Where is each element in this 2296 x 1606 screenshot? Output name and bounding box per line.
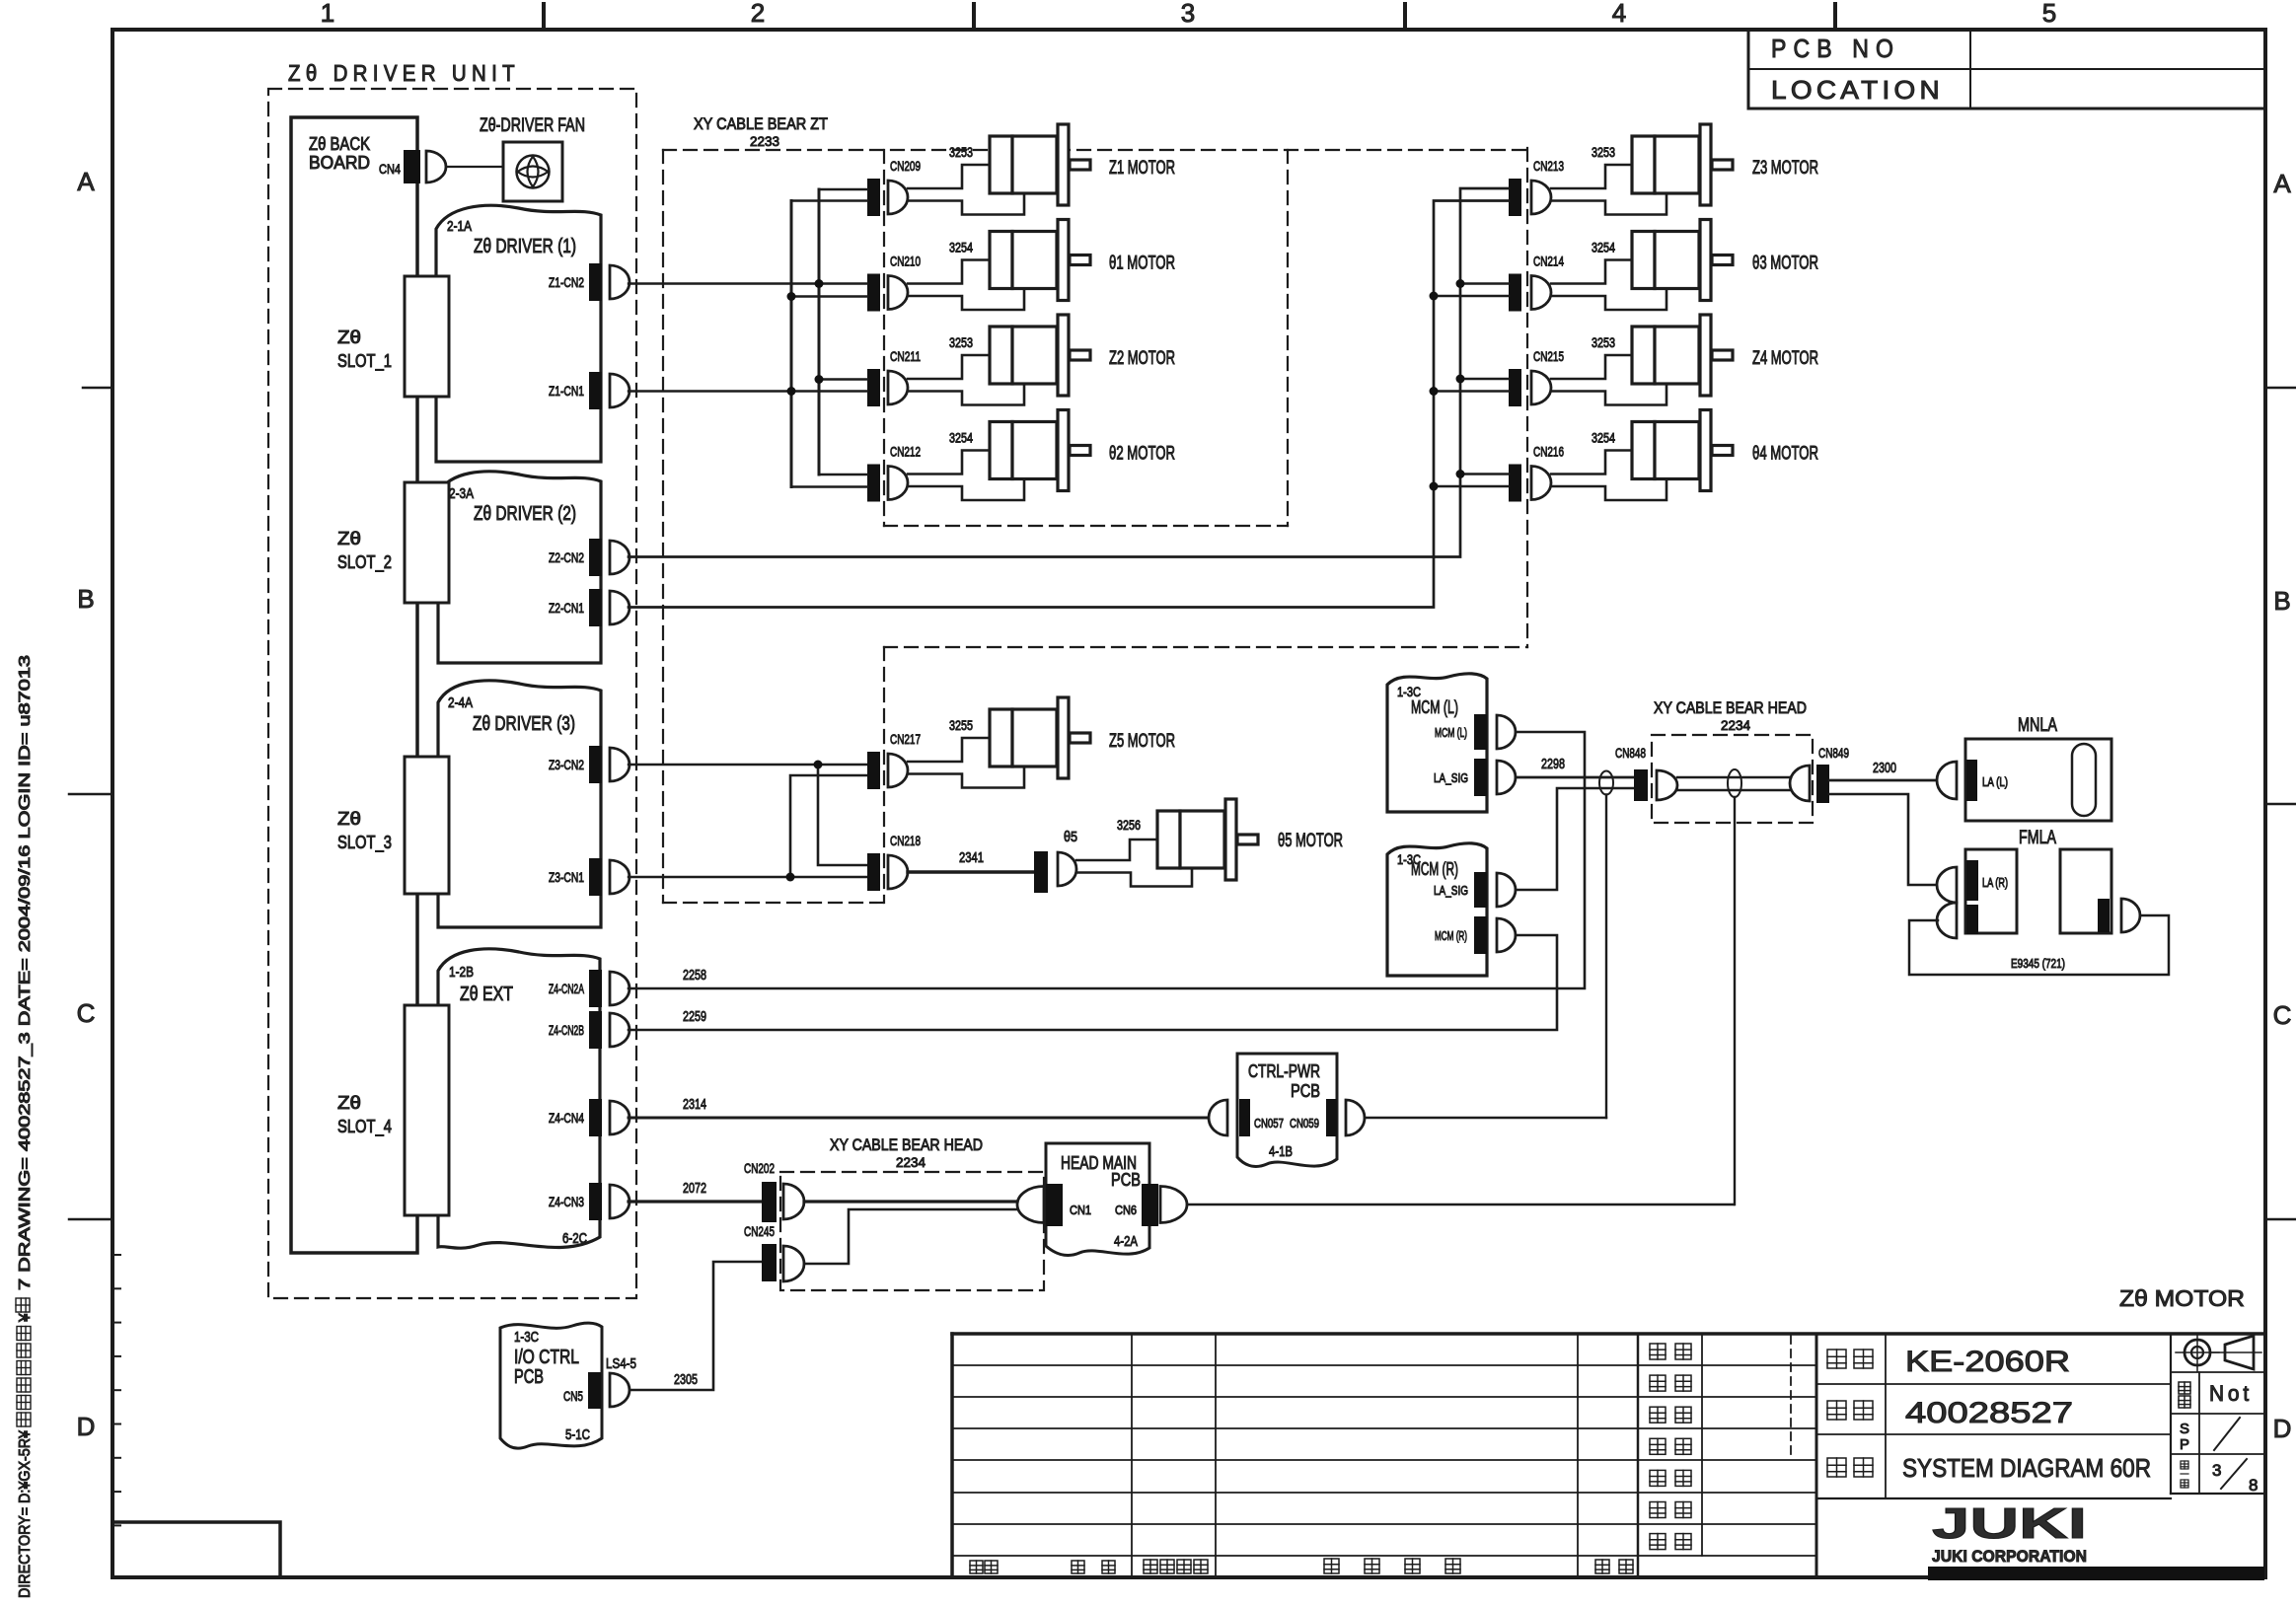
svg-text:CN218: CN218 bbox=[890, 833, 921, 848]
svg-text:MCM (R): MCM (R) bbox=[1411, 859, 1458, 879]
svg-text:Z1-CN2: Z1-CN2 bbox=[549, 274, 584, 290]
svg-text:P: P bbox=[2180, 1436, 2189, 1453]
svg-text:Zθ MOTOR: Zθ MOTOR bbox=[2119, 1285, 2245, 1311]
svg-text:Zθ BACK: Zθ BACK bbox=[309, 134, 370, 154]
svg-text:1-3C: 1-3C bbox=[514, 1329, 539, 1346]
svg-text:CN213: CN213 bbox=[1533, 158, 1564, 174]
svg-text:PCB: PCB bbox=[1111, 1170, 1141, 1190]
svg-text:CN057: CN057 bbox=[1254, 1116, 1284, 1131]
svg-text:CN212: CN212 bbox=[890, 444, 921, 460]
svg-text:Zθ DRIVER UNIT: Zθ DRIVER UNIT bbox=[288, 60, 520, 86]
svg-text:LS4-5: LS4-5 bbox=[606, 1355, 636, 1372]
svg-text:DIRECTORY= D:¥GX-5R¥: DIRECTORY= D:¥GX-5R¥ bbox=[17, 1430, 34, 1598]
svg-text:LA_SIG: LA_SIG bbox=[1434, 883, 1468, 898]
svg-text:2-3A: 2-3A bbox=[449, 485, 474, 502]
svg-text:MNLA: MNLA bbox=[2018, 715, 2057, 736]
svg-text:θ3 MOTOR: θ3 MOTOR bbox=[1752, 254, 1818, 274]
svg-text:2072: 2072 bbox=[683, 1180, 706, 1197]
svg-text:S: S bbox=[2180, 1421, 2189, 1437]
svg-text:2-4A: 2-4A bbox=[448, 694, 473, 711]
svg-text:Z1 MOTOR: Z1 MOTOR bbox=[1109, 158, 1175, 179]
svg-text:Z4-CN3: Z4-CN3 bbox=[549, 1194, 584, 1209]
svg-text:CN215: CN215 bbox=[1533, 348, 1564, 364]
svg-text:LA (R): LA (R) bbox=[1982, 875, 2008, 890]
svg-text:CN245: CN245 bbox=[744, 1223, 775, 1239]
svg-text:3253: 3253 bbox=[1592, 334, 1615, 350]
svg-text:2259: 2259 bbox=[683, 1008, 706, 1025]
svg-text:SLOT_3: SLOT_3 bbox=[337, 833, 392, 853]
svg-text:Z1-CN1: Z1-CN1 bbox=[549, 383, 584, 399]
svg-text:FMLA: FMLA bbox=[2019, 828, 2056, 848]
svg-text:B: B bbox=[77, 584, 94, 614]
svg-text:SLOT_2: SLOT_2 bbox=[337, 552, 392, 573]
svg-text:θ2 MOTOR: θ2 MOTOR bbox=[1109, 444, 1175, 465]
svg-text:E9345 (721): E9345 (721) bbox=[2011, 956, 2065, 971]
svg-text:Zθ EXT: Zθ EXT bbox=[460, 984, 513, 1005]
svg-text:3: 3 bbox=[2212, 1461, 2221, 1480]
svg-text:2-1A: 2-1A bbox=[447, 218, 472, 235]
svg-text:5: 5 bbox=[2042, 0, 2056, 28]
svg-text:2234: 2234 bbox=[896, 1154, 926, 1170]
svg-text:JUKI CORPORATION: JUKI CORPORATION bbox=[1932, 1547, 2087, 1566]
svg-text:Zθ: Zθ bbox=[337, 1093, 361, 1113]
svg-text:Zθ DRIVER (1): Zθ DRIVER (1) bbox=[474, 236, 576, 257]
svg-text:2298: 2298 bbox=[1541, 756, 1565, 772]
svg-text:Zθ-DRIVER FAN: Zθ-DRIVER FAN bbox=[480, 115, 585, 136]
svg-text:Z4-CN2B: Z4-CN2B bbox=[549, 1022, 584, 1038]
svg-text:2258: 2258 bbox=[683, 967, 706, 984]
svg-text:CTRL-PWR: CTRL-PWR bbox=[1248, 1061, 1320, 1081]
svg-text:2300: 2300 bbox=[1873, 760, 1896, 776]
svg-text:D: D bbox=[2273, 1414, 2292, 1443]
svg-text:CN6: CN6 bbox=[1115, 1203, 1137, 1217]
svg-text:CN1: CN1 bbox=[1070, 1203, 1091, 1217]
svg-text:CN059: CN059 bbox=[1290, 1116, 1319, 1131]
svg-text:2233: 2233 bbox=[750, 133, 779, 149]
svg-text:θ5 MOTOR: θ5 MOTOR bbox=[1278, 831, 1343, 851]
svg-text:A: A bbox=[2273, 169, 2291, 198]
svg-text:Z4-CN4: Z4-CN4 bbox=[549, 1110, 584, 1126]
svg-text:3253: 3253 bbox=[949, 144, 973, 160]
svg-text:Z3-CN1: Z3-CN1 bbox=[549, 869, 584, 885]
svg-text:SYSTEM DIAGRAM 60R: SYSTEM DIAGRAM 60R bbox=[1902, 1453, 2151, 1483]
svg-text:MCM (L): MCM (L) bbox=[1435, 725, 1467, 740]
svg-text:θ4 MOTOR: θ4 MOTOR bbox=[1752, 444, 1818, 465]
svg-text:1: 1 bbox=[321, 0, 334, 28]
svg-text:3255: 3255 bbox=[949, 717, 973, 733]
svg-text:I/O CTRL: I/O CTRL bbox=[514, 1347, 579, 1368]
svg-text:CN211: CN211 bbox=[890, 348, 921, 364]
svg-text:Zθ: Zθ bbox=[337, 529, 361, 548]
svg-text:3253: 3253 bbox=[949, 334, 973, 350]
svg-text:Z4 MOTOR: Z4 MOTOR bbox=[1752, 348, 1818, 369]
svg-text:Not: Not bbox=[2209, 1381, 2253, 1406]
svg-text:Zθ DRIVER (3): Zθ DRIVER (3) bbox=[473, 713, 575, 735]
svg-text:2: 2 bbox=[751, 0, 765, 28]
svg-text:4: 4 bbox=[1612, 0, 1626, 28]
svg-text:LA_SIG: LA_SIG bbox=[1434, 770, 1468, 785]
svg-text:XY CABLE BEAR HEAD: XY CABLE BEAR HEAD bbox=[1654, 698, 1807, 717]
svg-text:Zθ DRIVER (2): Zθ DRIVER (2) bbox=[474, 503, 576, 525]
svg-text:Z3 MOTOR: Z3 MOTOR bbox=[1752, 158, 1818, 179]
svg-text:B: B bbox=[2273, 586, 2290, 616]
svg-text:3254: 3254 bbox=[949, 430, 973, 446]
svg-text:CN848: CN848 bbox=[1615, 745, 1646, 761]
svg-text:BOARD: BOARD bbox=[309, 153, 370, 173]
svg-text:SLOT_1: SLOT_1 bbox=[337, 351, 392, 372]
svg-text:8: 8 bbox=[2249, 1476, 2258, 1495]
svg-text:MCM (L): MCM (L) bbox=[1411, 697, 1458, 717]
svg-text:Z3-CN2: Z3-CN2 bbox=[549, 757, 584, 772]
svg-text:CN216: CN216 bbox=[1533, 444, 1564, 460]
svg-text:4-1B: 4-1B bbox=[1269, 1143, 1293, 1160]
svg-text:Zθ: Zθ bbox=[337, 809, 361, 829]
svg-text:θ1 MOTOR: θ1 MOTOR bbox=[1109, 254, 1175, 274]
svg-text:3: 3 bbox=[1181, 0, 1195, 28]
svg-text:CN849: CN849 bbox=[1818, 745, 1849, 761]
svg-text:C: C bbox=[77, 998, 96, 1028]
svg-text:3253: 3253 bbox=[1592, 144, 1615, 160]
svg-text:KE-2060R: KE-2060R bbox=[1905, 1346, 2070, 1378]
svg-text:4-2A: 4-2A bbox=[1114, 1233, 1138, 1250]
svg-text:θ5: θ5 bbox=[1064, 829, 1077, 845]
svg-text:LOCATION: LOCATION bbox=[1771, 75, 1944, 105]
svg-text:CN4: CN4 bbox=[379, 161, 401, 177]
svg-text:CN209: CN209 bbox=[890, 158, 921, 174]
svg-text:6-2C: 6-2C bbox=[562, 1230, 587, 1247]
svg-text:SLOT_4: SLOT_4 bbox=[337, 1117, 392, 1137]
svg-text:40028527: 40028527 bbox=[1905, 1397, 2073, 1429]
svg-text:2341: 2341 bbox=[959, 849, 984, 866]
svg-text:Z5 MOTOR: Z5 MOTOR bbox=[1109, 731, 1175, 752]
svg-text:C: C bbox=[2273, 1000, 2292, 1030]
svg-text:JUKI: JUKI bbox=[1932, 1499, 2087, 1548]
svg-text:XY CABLE BEAR ZT: XY CABLE BEAR ZT bbox=[694, 114, 828, 133]
svg-text:PCB: PCB bbox=[514, 1366, 544, 1388]
svg-text:3254: 3254 bbox=[1592, 240, 1615, 255]
svg-text:CN217: CN217 bbox=[890, 731, 921, 747]
svg-text:PCB: PCB bbox=[1291, 1081, 1320, 1101]
svg-text:1-2B: 1-2B bbox=[449, 964, 474, 981]
svg-text:CN214: CN214 bbox=[1533, 254, 1564, 269]
svg-text:3256: 3256 bbox=[1117, 817, 1141, 833]
svg-text:D: D bbox=[77, 1412, 96, 1441]
svg-text:3254: 3254 bbox=[949, 240, 973, 255]
svg-text:LA (L): LA (L) bbox=[1982, 774, 2008, 789]
svg-text:5-1C: 5-1C bbox=[565, 1426, 590, 1443]
svg-text:Z2-CN1: Z2-CN1 bbox=[549, 600, 584, 616]
svg-text:PCB NO: PCB NO bbox=[1771, 34, 1900, 63]
svg-text:A: A bbox=[77, 167, 95, 196]
svg-text:CN202: CN202 bbox=[744, 1160, 775, 1176]
svg-text:7 DRAWING= 40028527_3 DATE= 20: 7 DRAWING= 40028527_3 DATE= 2004/09/16 L… bbox=[17, 655, 34, 1290]
svg-text:CN210: CN210 bbox=[890, 254, 921, 269]
svg-text:MCM (R): MCM (R) bbox=[1435, 928, 1467, 943]
svg-text:Z2-CN2: Z2-CN2 bbox=[549, 549, 584, 565]
svg-text:¥: ¥ bbox=[17, 1313, 34, 1323]
svg-text:3254: 3254 bbox=[1592, 430, 1615, 446]
svg-text:XY CABLE BEAR HEAD: XY CABLE BEAR HEAD bbox=[830, 1135, 983, 1154]
svg-text:2314: 2314 bbox=[683, 1096, 706, 1113]
svg-text:Zθ: Zθ bbox=[337, 328, 361, 347]
svg-text:2305: 2305 bbox=[674, 1371, 698, 1388]
svg-text:CN5: CN5 bbox=[563, 1388, 583, 1404]
svg-text:2234: 2234 bbox=[1721, 717, 1750, 733]
svg-text:Z4-CN2A: Z4-CN2A bbox=[549, 981, 584, 996]
svg-text:Z2 MOTOR: Z2 MOTOR bbox=[1109, 348, 1175, 369]
